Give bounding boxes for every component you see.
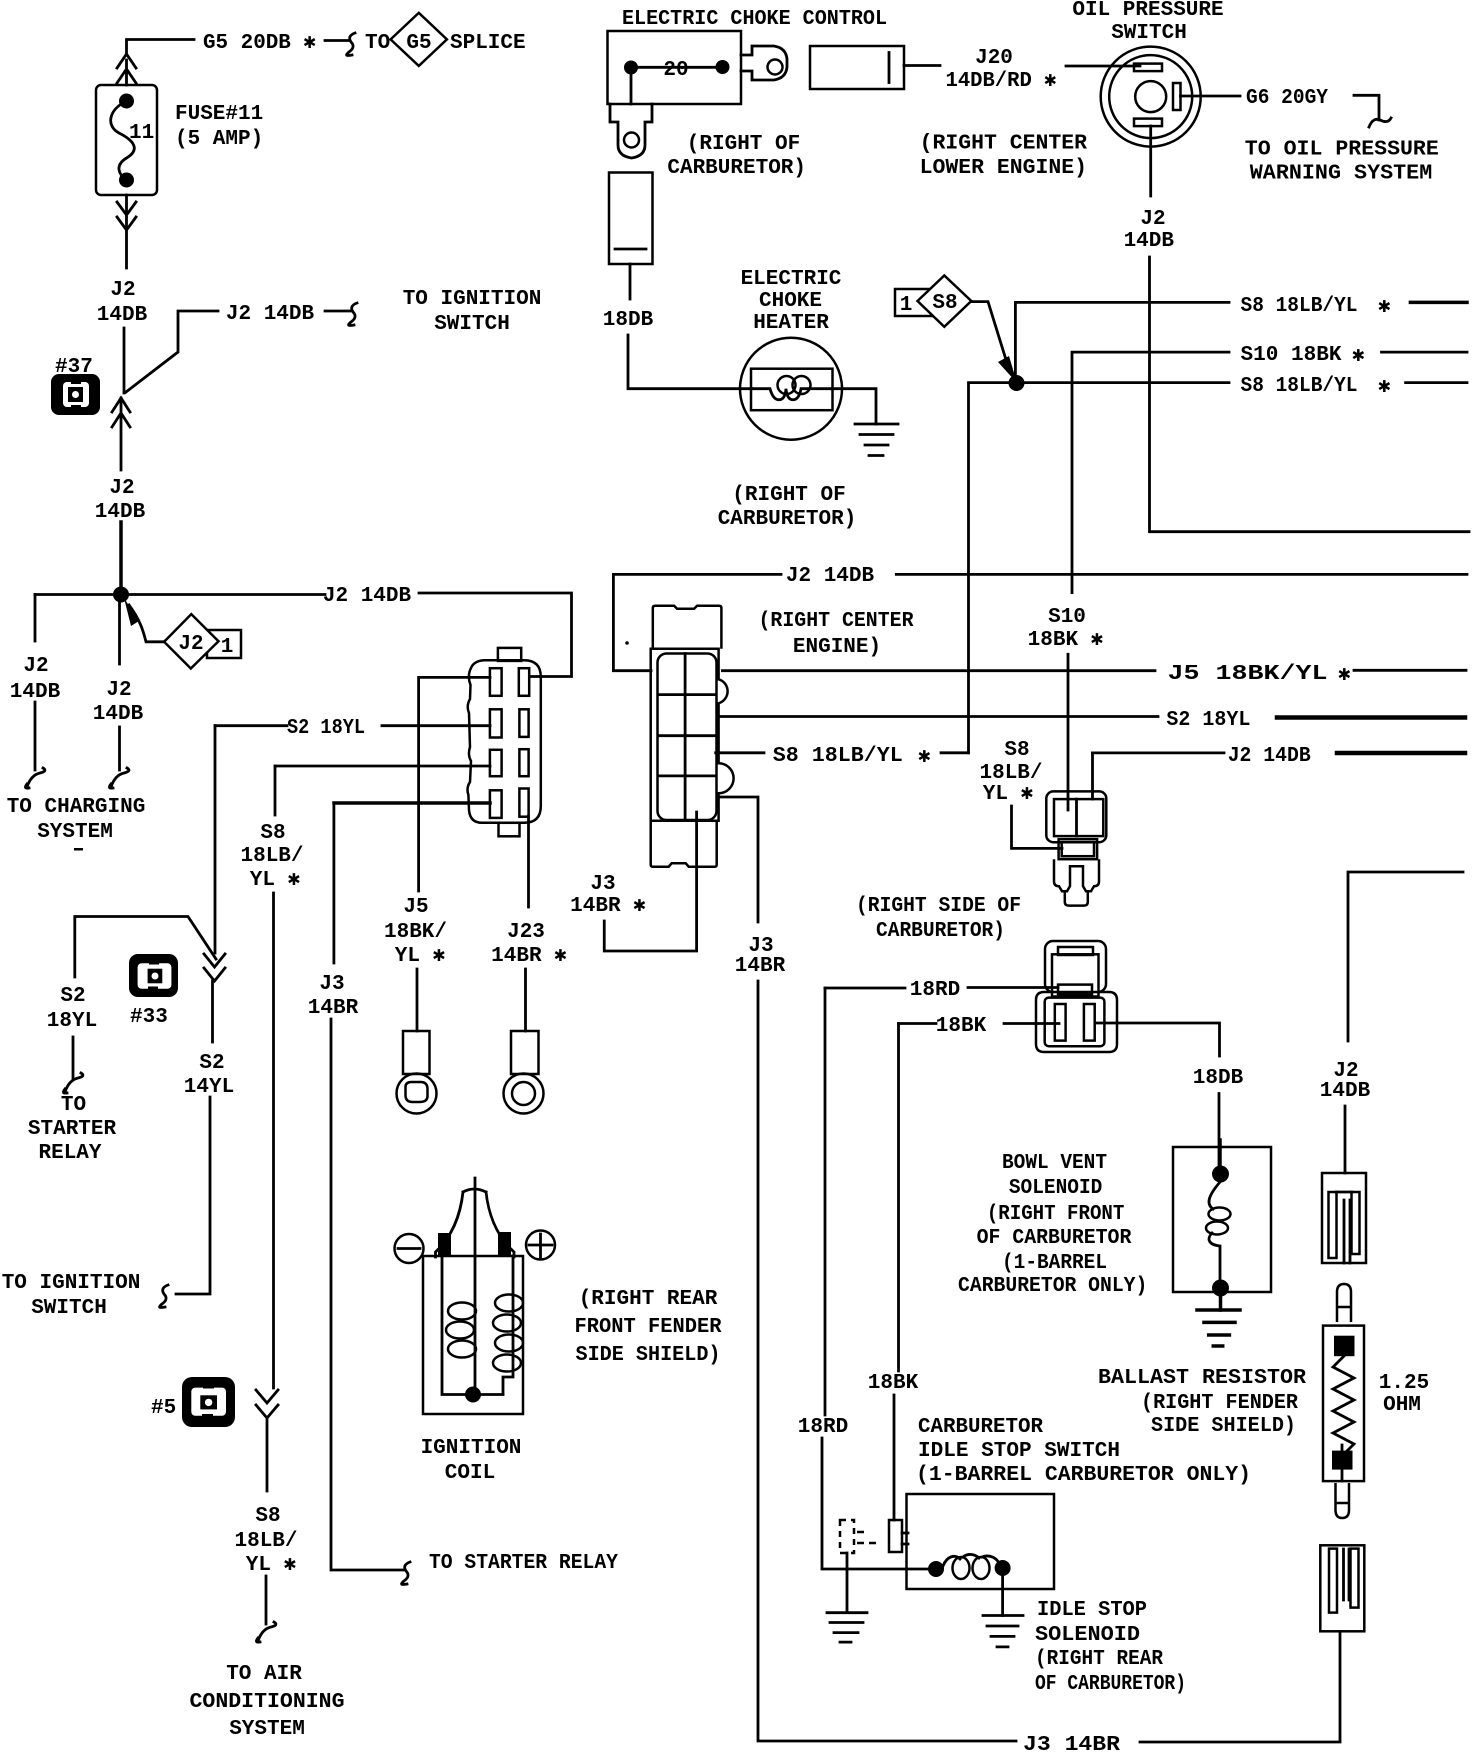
- wire J2 from 2-pin connector: [1091, 753, 1094, 799]
- connector C5 (ballast top): [1322, 1173, 1366, 1263]
- idle stop solenoid coil: [928, 1554, 1011, 1579]
- svg-text:OF CARBURETOR: OF CARBURETOR: [977, 1227, 1132, 1250]
- grommet symbol #5: [182, 1377, 235, 1427]
- ballast resistor R1: [1323, 1326, 1364, 1482]
- svg-text:14DB/RD ✱: 14DB/RD ✱: [946, 70, 1057, 93]
- svg-text:18BK: 18BK: [936, 1015, 987, 1038]
- svg-text:J20: J20: [975, 47, 1013, 70]
- wire hook to starter relay: [72, 1037, 75, 1078]
- wire S2 14YL: [211, 981, 214, 1042]
- wire 18BK: [899, 1022, 1060, 1025]
- arrow to J2/1 reference: [129, 605, 164, 642]
- svg-text:14DB: 14DB: [93, 703, 144, 726]
- idle stop switch box: [907, 1494, 1055, 1589]
- svg-text:S2: S2: [199, 1052, 224, 1075]
- wire J3 from pin4: [334, 801, 490, 805]
- wire hook to oil pressure warning: [1354, 95, 1379, 120]
- wire S8 right segment: [1410, 301, 1467, 305]
- svg-text:CARBURETOR): CARBURETOR): [667, 157, 806, 180]
- wire left branch down: [34, 595, 37, 642]
- wire J2 down to right edge: [1150, 257, 1470, 532]
- svg-text:(1-BARREL: (1-BARREL: [1002, 1252, 1107, 1275]
- wire solenoid to ground: [1219, 1292, 1223, 1310]
- wire S8 18LB/YL lower: [969, 383, 1230, 753]
- svg-text:LOWER ENGINE): LOWER ENGINE): [920, 157, 1087, 180]
- svg-text:TO AIR: TO AIR: [226, 1663, 302, 1686]
- wire J23 to terminal: [524, 969, 527, 1031]
- svg-text:18BK ✱: 18BK ✱: [1028, 629, 1104, 652]
- svg-text:YL ✱: YL ✱: [395, 945, 446, 968]
- svg-text:CARBURETOR): CARBURETOR): [718, 508, 857, 531]
- wire S8 vertical upper: [274, 766, 277, 815]
- svg-text:(RIGHT CENTER: (RIGHT CENTER: [920, 133, 1088, 156]
- svg-text:YL ✱: YL ✱: [250, 869, 301, 892]
- svg-text:TO CHARGING: TO CHARGING: [7, 796, 146, 819]
- reference diamond J2: [164, 614, 218, 668]
- coil negative terminal: [438, 1233, 451, 1256]
- svg-text:18RD: 18RD: [910, 979, 960, 1002]
- svg-text:18LB/: 18LB/: [240, 845, 303, 868]
- wire hook: [118, 727, 121, 770]
- bowl vent solenoid L1: [1173, 1140, 1271, 1297]
- ignition coil T1: [423, 1178, 523, 1414]
- svg-text:IDLE STOP SWITCH: IDLE STOP SWITCH: [918, 1440, 1120, 1463]
- wire 18RD vertical: [824, 988, 827, 1415]
- svg-text:S8 18LB/YL: S8 18LB/YL: [1241, 295, 1358, 318]
- wire G6 20GY: [1181, 95, 1241, 98]
- svg-text:TO: TO: [365, 32, 390, 55]
- ring terminal J23: [504, 1031, 544, 1114]
- connector on J20 wire: [810, 46, 904, 89]
- wire S2 to ignition switch: [176, 1097, 210, 1294]
- connector C2 engine harness body: [651, 606, 734, 867]
- wire J20: [904, 64, 940, 67]
- ring terminal J5: [397, 1031, 437, 1114]
- svg-text:S10 18BK: S10 18BK: [1241, 344, 1342, 367]
- svg-text:J3: J3: [590, 873, 615, 896]
- svg-text:1: 1: [221, 636, 234, 659]
- junction node S8: [1009, 375, 1025, 391]
- wire S2 vertical: [214, 726, 217, 953]
- svg-text:SWITCH: SWITCH: [434, 313, 510, 336]
- svg-text:G6 20GY: G6 20GY: [1246, 87, 1328, 110]
- connector chevrons above fuse: [117, 54, 136, 85]
- pin row3 left: [490, 750, 502, 776]
- svg-text:BOWL VENT: BOWL VENT: [1002, 1152, 1107, 1175]
- wire S2 18YL from pin2: [215, 724, 490, 727]
- svg-text:CARBURETOR): CARBURETOR): [876, 920, 1005, 943]
- wire 18RD: [825, 986, 1058, 989]
- svg-text:(RIGHT REAR: (RIGHT REAR: [579, 1288, 718, 1311]
- reference diamond S8: [918, 276, 972, 327]
- svg-text:(1-BARREL CARBURETOR ONLY): (1-BARREL CARBURETOR ONLY): [916, 1464, 1251, 1487]
- connector chevron on J2 wire: [112, 398, 130, 470]
- wire S8 to air conditioning: [265, 1576, 268, 1624]
- wire junction horizontal: [35, 593, 572, 677]
- wire S8 vertical long: [272, 893, 275, 1388]
- svg-text:J2: J2: [178, 633, 203, 656]
- wire S10 right segment: [1382, 351, 1468, 354]
- svg-text:14DB: 14DB: [10, 681, 61, 704]
- arrow from S8 diamond to junction: [971, 302, 1007, 363]
- svg-text:11: 11: [129, 122, 154, 145]
- wire J3 from connector right: [719, 797, 758, 922]
- svg-text:1: 1: [900, 294, 913, 317]
- svg-text:1.25: 1.25: [1379, 1372, 1429, 1395]
- svg-text:J2 14DB: J2 14DB: [226, 303, 315, 326]
- wire branch to ignition switch: [126, 311, 218, 392]
- wire S8 below chevron: [266, 1419, 269, 1491]
- wire solenoid to ground: [1001, 1576, 1004, 1616]
- wire S8 to vertical: [941, 751, 969, 754]
- wire J2 14DB long (to engine connector): [613, 574, 1467, 670]
- ballast lead top: [1337, 1284, 1351, 1322]
- wire J2 to connector: [1344, 1106, 1347, 1173]
- svg-text:S8: S8: [255, 1505, 280, 1528]
- ballast lead bottom: [1336, 1483, 1350, 1518]
- wire 18BK vertical: [897, 1024, 900, 1372]
- svg-text:S8: S8: [260, 822, 285, 845]
- svg-text:OF CARBURETOR): OF CARBURETOR): [1035, 1673, 1186, 1696]
- svg-text:(RIGHT FENDER: (RIGHT FENDER: [1141, 1392, 1298, 1415]
- junction node: [113, 587, 129, 603]
- svg-text:SWITCH: SWITCH: [31, 1297, 107, 1320]
- svg-text:18DB: 18DB: [1193, 1067, 1244, 1090]
- svg-text:14BR ✱: 14BR ✱: [491, 945, 567, 968]
- svg-text:18DB: 18DB: [603, 309, 654, 332]
- svg-text:J2 14DB: J2 14DB: [323, 585, 412, 608]
- svg-text:(RIGHT OF: (RIGHT OF: [732, 484, 845, 507]
- wire S2 18YL from connector: [719, 715, 1158, 718]
- svg-text:FUSE#11: FUSE#11: [175, 103, 263, 126]
- svg-text:IGNITION: IGNITION: [421, 1437, 522, 1460]
- wire J2 14DB right column: [1348, 872, 1463, 1041]
- svg-text:ELECTRIC CHOKE CONTROL: ELECTRIC CHOKE CONTROL: [622, 8, 887, 31]
- wire heater to ground: [832, 389, 876, 424]
- pin row4 left: [490, 790, 502, 818]
- svg-text:RELAY: RELAY: [38, 1142, 101, 1165]
- switch plunger (dashed): [840, 1520, 876, 1553]
- wire middle branch down: [118, 603, 121, 664]
- wire S8 from pin3: [275, 765, 490, 768]
- connector C1 8-pin body: [468, 648, 541, 836]
- svg-text:14DB: 14DB: [1124, 230, 1175, 253]
- pin row1 right: [519, 668, 529, 696]
- svg-text:✱: ✱: [1378, 296, 1391, 319]
- svg-text:18LB/: 18LB/: [979, 762, 1042, 785]
- svg-text:S8 18LB/YL: S8 18LB/YL: [1241, 375, 1358, 398]
- svg-text:S10: S10: [1048, 606, 1086, 629]
- choke control right tab: [741, 46, 787, 80]
- svg-text:TO STARTER RELAY: TO STARTER RELAY: [429, 1552, 618, 1575]
- plus symbol: [526, 1231, 555, 1260]
- pin row3 right: [519, 749, 528, 776]
- svg-text:18YL: 18YL: [47, 1010, 97, 1033]
- connector on choke wire: [609, 173, 653, 265]
- svg-text:J3 14BR: J3 14BR: [1023, 1734, 1120, 1752]
- coil positive terminal: [498, 1232, 511, 1256]
- svg-text:COIL: COIL: [445, 1462, 495, 1485]
- reference box 1: [207, 630, 241, 658]
- wire J3 bottom from connector: [604, 812, 696, 951]
- wire J3 to starter relay: [331, 1019, 403, 1570]
- arrow to ignition switch: [325, 310, 350, 313]
- svg-text:J2: J2: [109, 477, 134, 500]
- svg-text:S8: S8: [1004, 739, 1029, 762]
- svg-text:J2 14DB: J2 14DB: [786, 565, 875, 588]
- svg-text:OIL PRESSURE: OIL PRESSURE: [1072, 0, 1223, 22]
- svg-text:CARBURETOR ONLY): CARBURETOR ONLY): [958, 1275, 1147, 1298]
- svg-text:TO IGNITION: TO IGNITION: [2, 1272, 141, 1295]
- ground symbol: [1197, 1310, 1240, 1346]
- svg-text:J5: J5: [403, 896, 428, 919]
- svg-text:WARNING SYSTEM: WARNING SYSTEM: [1250, 162, 1433, 185]
- wire J23 from pin8: [527, 816, 530, 907]
- scan speck: [625, 641, 629, 645]
- svg-text:✱: ✱: [918, 746, 931, 769]
- svg-text:(RIGHT REAR: (RIGHT REAR: [1035, 1648, 1163, 1671]
- svg-text:TO: TO: [61, 1094, 86, 1117]
- svg-text:(RIGHT SIDE OF: (RIGHT SIDE OF: [856, 895, 1021, 918]
- svg-text:IDLE STOP: IDLE STOP: [1037, 1599, 1147, 1622]
- wire plunger to ground: [846, 1553, 849, 1612]
- connector C6 (ballast bottom): [1320, 1545, 1364, 1631]
- svg-text:14BR: 14BR: [735, 955, 786, 978]
- pin row4 right: [519, 789, 528, 817]
- wire 18BK to switch: [893, 1395, 896, 1520]
- svg-text:CARBURETOR: CARBURETOR: [918, 1416, 1043, 1439]
- wire J5 pin1: [419, 676, 490, 679]
- wire J2 left segment: [1093, 752, 1225, 755]
- reference box 1 (S8 splice): [895, 289, 934, 316]
- svg-text:S2: S2: [60, 985, 85, 1008]
- wire S8 from connector: [716, 751, 764, 754]
- svg-text:YL ✱: YL ✱: [983, 783, 1034, 806]
- minus symbol: [395, 1234, 424, 1263]
- connector C3 2-pin: [1046, 791, 1106, 905]
- svg-text:18BK/: 18BK/: [384, 921, 447, 944]
- wire J3 vertical: [332, 803, 335, 963]
- wire J5 to terminal: [416, 969, 419, 1031]
- svg-text:TO OIL PRESSURE: TO OIL PRESSURE: [1245, 139, 1439, 162]
- svg-text:14DB: 14DB: [1320, 1080, 1371, 1103]
- splice chevron S2: [204, 954, 225, 981]
- svg-text:SYSTEM: SYSTEM: [37, 821, 113, 844]
- svg-text:(5 AMP): (5 AMP): [175, 128, 263, 151]
- svg-text:18RD: 18RD: [798, 1416, 848, 1439]
- svg-text:#5: #5: [151, 1397, 176, 1420]
- svg-text:STARTER: STARTER: [28, 1118, 117, 1141]
- svg-text:G5: G5: [406, 32, 431, 55]
- ground symbol: [983, 1616, 1023, 1647]
- svg-text:TO IGNITION: TO IGNITION: [403, 288, 542, 311]
- svg-text:18BK: 18BK: [868, 1372, 919, 1395]
- svg-text:HEATER: HEATER: [753, 312, 829, 335]
- svg-text:20: 20: [663, 59, 688, 82]
- svg-text:ENGINE): ENGINE): [793, 636, 881, 659]
- svg-text:(RIGHT FRONT: (RIGHT FRONT: [987, 1203, 1125, 1226]
- ground symbol: [855, 424, 898, 456]
- svg-text:✱: ✱: [1352, 345, 1365, 368]
- pin row2 left: [490, 709, 502, 737]
- svg-text:BALLAST RESISTOR: BALLAST RESISTOR: [1098, 1367, 1306, 1390]
- wire 18DB to solenoid: [1218, 1094, 1221, 1174]
- wire J3 14BR bottom rail: [758, 981, 1340, 1742]
- svg-text:SWITCH: SWITCH: [1111, 22, 1187, 45]
- wire J5 vertical: [417, 677, 420, 891]
- ground symbol: [827, 1613, 867, 1642]
- wire 18DB from connector: [1095, 1023, 1220, 1056]
- wire to charging system: [34, 702, 37, 770]
- svg-text:J2 14DB: J2 14DB: [1228, 745, 1311, 768]
- svg-text:J2: J2: [110, 279, 135, 302]
- svg-text:OHM: OHM: [1383, 1394, 1421, 1417]
- svg-text:S8: S8: [932, 292, 957, 315]
- svg-text:J5 18BK/YL: J5 18BK/YL: [1168, 663, 1328, 686]
- wire J2 right segment: [1337, 751, 1465, 756]
- svg-text:14YL: 14YL: [184, 1076, 234, 1099]
- svg-text:S2 18YL: S2 18YL: [1166, 709, 1250, 732]
- svg-text:14BR: 14BR: [308, 997, 359, 1020]
- wire S8 18LB/YL upper: [1015, 302, 1229, 383]
- electric choke control module: [608, 31, 742, 104]
- svg-text:SOLENOID: SOLENOID: [1009, 1177, 1103, 1200]
- svg-text:J3: J3: [319, 973, 344, 996]
- splice chevron S8: [256, 1390, 278, 1418]
- wire 18RD to idle stop: [822, 1438, 930, 1569]
- svg-text:18LB/: 18LB/: [234, 1530, 297, 1553]
- svg-text:SYSTEM: SYSTEM: [229, 1718, 305, 1741]
- wire J5 from connector: [722, 669, 1155, 672]
- scan speck: [74, 848, 83, 851]
- svg-text:J2: J2: [1140, 208, 1165, 231]
- wire J2 to junction: [119, 522, 123, 594]
- svg-text:G5 20DB ✱: G5 20DB ✱: [203, 32, 316, 55]
- svg-text:SIDE SHIELD): SIDE SHIELD): [576, 1344, 721, 1367]
- wire 18DB to heater: [628, 335, 752, 389]
- wire J5 right segment: [1354, 669, 1466, 672]
- svg-text:SOLENOID: SOLENOID: [1035, 1624, 1140, 1647]
- wire to splice arrow: [325, 39, 348, 42]
- wire from connector to bottom rail: [1339, 1632, 1342, 1742]
- svg-text:SPLICE: SPLICE: [450, 32, 526, 55]
- svg-text:✱: ✱: [1378, 376, 1391, 399]
- svg-text:CONDITIONING: CONDITIONING: [190, 1691, 345, 1714]
- electric choke heater: [740, 338, 842, 440]
- pin row2 right: [519, 709, 528, 737]
- svg-text:J23: J23: [507, 921, 545, 944]
- svg-text:SIDE SHIELD): SIDE SHIELD): [1151, 1415, 1296, 1438]
- wire S2 right segment: [1277, 715, 1465, 720]
- wire S8 into 2-pin connector: [1012, 806, 1063, 848]
- svg-text:CHOKE: CHOKE: [759, 290, 822, 313]
- svg-text:J2: J2: [106, 679, 131, 702]
- svg-text:(RIGHT CENTER: (RIGHT CENTER: [759, 610, 914, 633]
- connector C4 3-pin carburetor: [1036, 941, 1117, 1052]
- svg-text:ELECTRIC: ELECTRIC: [741, 268, 842, 291]
- wire S8 right segment: [1406, 381, 1467, 384]
- wire J2 down to junction: [123, 328, 126, 393]
- svg-text:✱: ✱: [1338, 664, 1351, 687]
- connector chevrons below fuse: [117, 195, 136, 268]
- svg-text:YL ✱: YL ✱: [246, 1554, 297, 1577]
- svg-text:#33: #33: [130, 1006, 168, 1029]
- svg-text:14BR ✱: 14BR ✱: [570, 895, 646, 918]
- fuse F11 (5 AMP): [96, 85, 157, 195]
- wire S2 18YL spur to starter relay: [75, 917, 216, 978]
- pin row1 left: [490, 668, 502, 696]
- wire G5 20DB from fuse to splice: [127, 40, 195, 53]
- choke control bottom tab: [610, 104, 652, 158]
- wire S10 18BK: [1072, 352, 1229, 592]
- wire J2 down from oil switch: [1149, 126, 1152, 196]
- oil pressure switch S1: [1101, 47, 1201, 147]
- grommet symbol #37: [51, 374, 100, 415]
- svg-text:S2 18YL: S2 18YL: [287, 717, 365, 740]
- switch terminal: [889, 1520, 908, 1552]
- wire J20 to oil switch: [1066, 65, 1140, 68]
- svg-text:J2: J2: [23, 655, 48, 678]
- splice symbol G5 diamond: [391, 13, 447, 66]
- svg-text:14DB: 14DB: [97, 304, 148, 327]
- grommet symbol #33: [129, 954, 178, 997]
- wire S10 to connector: [1067, 654, 1070, 810]
- svg-text:S8 18LB/YL: S8 18LB/YL: [773, 745, 903, 768]
- svg-text:FRONT FENDER: FRONT FENDER: [575, 1316, 722, 1339]
- wire 18DB down: [629, 264, 632, 299]
- svg-text:(RIGHT OF: (RIGHT OF: [687, 133, 800, 156]
